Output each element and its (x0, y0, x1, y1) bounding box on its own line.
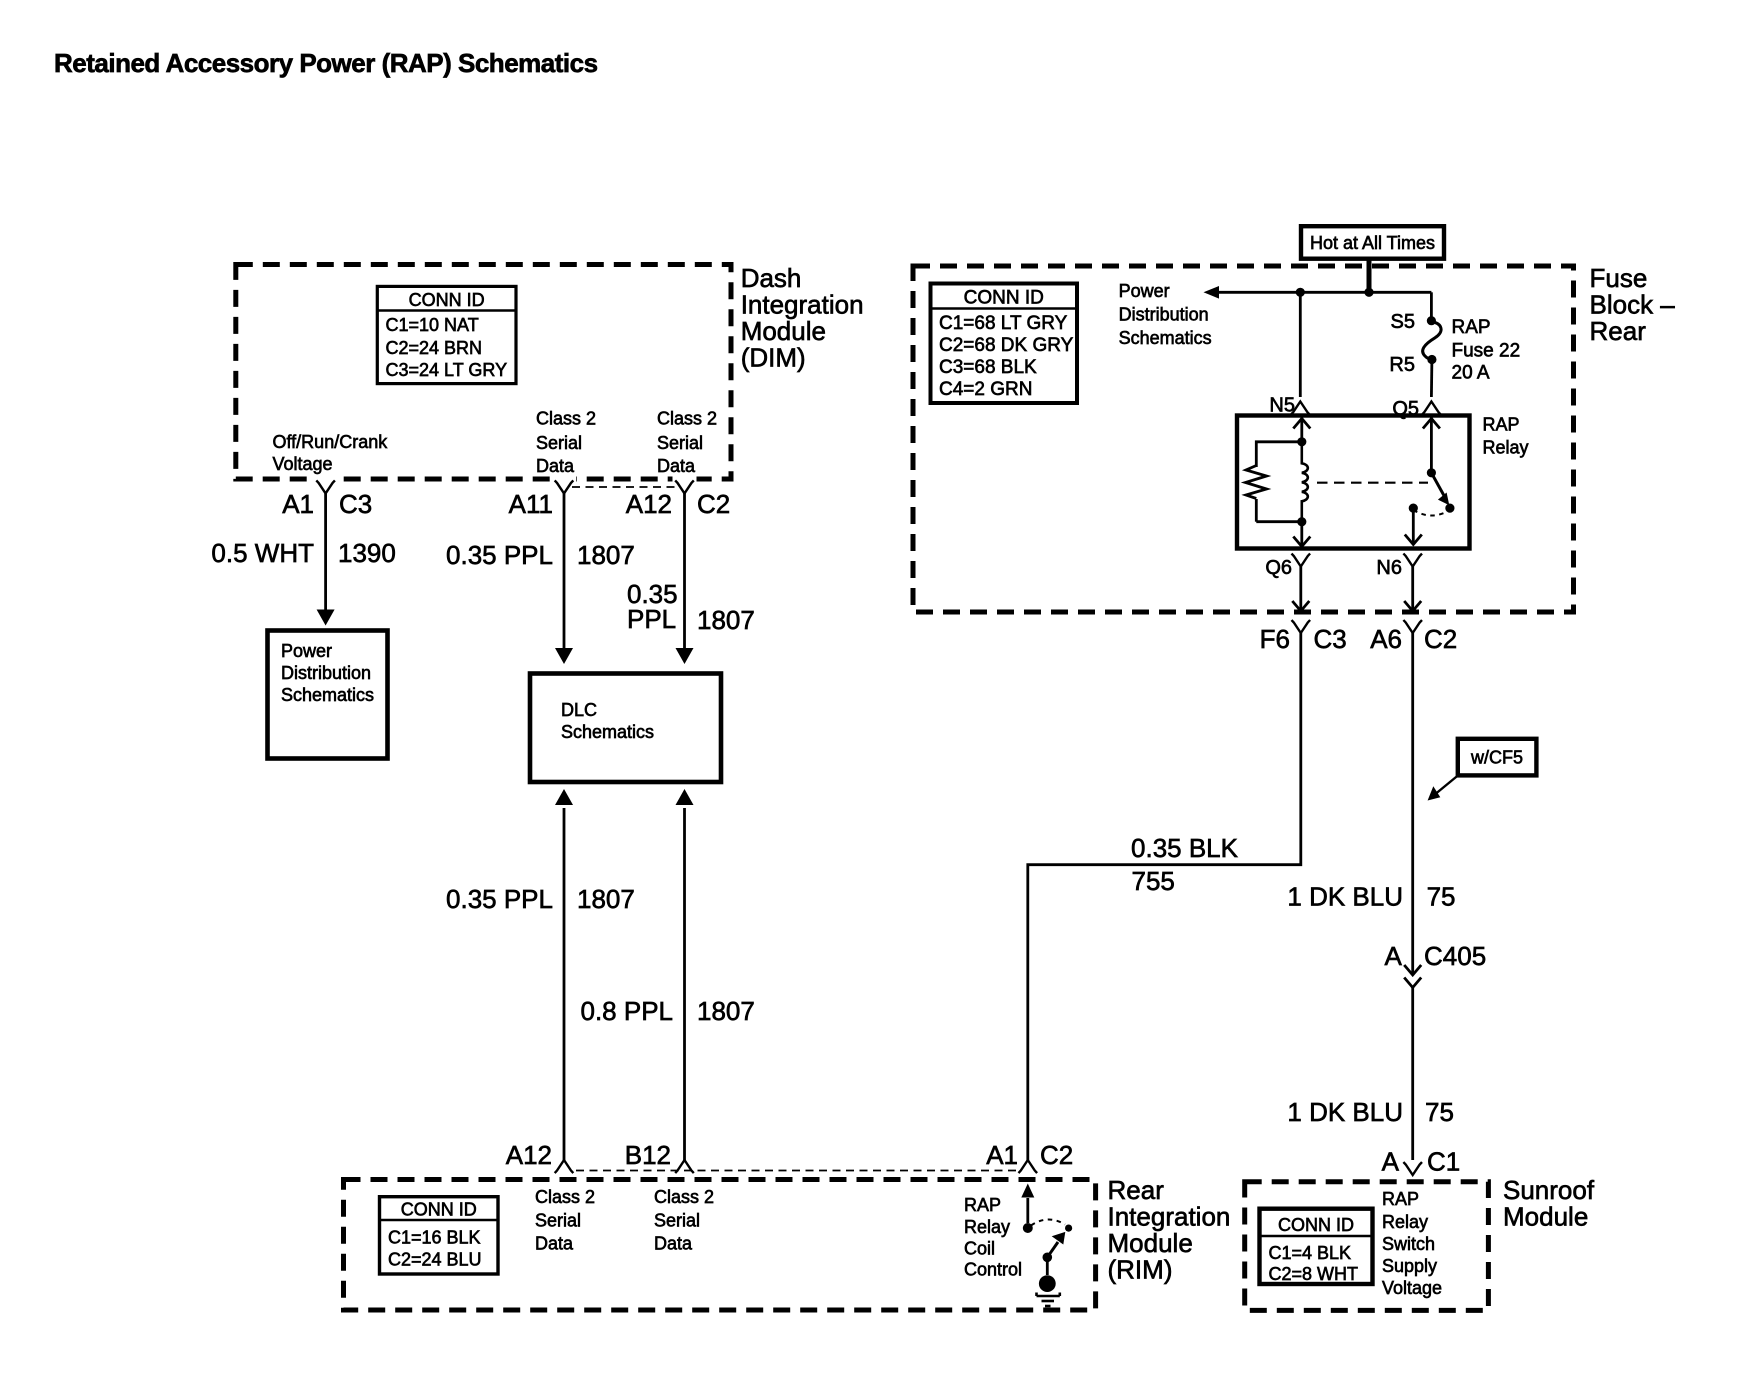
connector pin F6/C3 (1292, 620, 1311, 633)
connector pin A1/C3 of DIM (C3 connector symbol) (316, 480, 335, 493)
wire: relay coil feed from N5 (1300, 417, 1303, 442)
arrowhead to Power Distribution Schematics (left pointing) (1204, 286, 1220, 299)
box: Hot at All Times (1301, 226, 1444, 259)
svg-text:Serial: Serial (536, 433, 582, 453)
arrowhead on switch lever (1438, 493, 1449, 506)
wire: bottom rail to coil bottom junction (1256, 520, 1302, 523)
wire: Q6 down to fuse block edge (1299, 567, 1302, 611)
svg-text:Sunroof: Sunroof (1503, 1175, 1595, 1205)
wire: fuse R5 down to relay pin Q5 (1430, 360, 1433, 398)
text: DLC Schematics (561, 700, 654, 742)
svg-text:(RIM): (RIM) (1108, 1255, 1173, 1285)
svg-text:C1=16 BLK: C1=16 BLK (388, 1228, 481, 1248)
wire: bus down to RAP fuse S5 terminal (1430, 292, 1433, 317)
wire: N6 down to fuse block edge (1411, 567, 1414, 611)
svg-text:C1=10 NAT: C1=10 NAT (386, 315, 479, 335)
wire label 0.35 PPL (two lines) (627, 579, 678, 634)
svg-text:C405: C405 (1424, 941, 1486, 971)
svg-text:C2: C2 (1424, 624, 1457, 654)
svg-text:PPL: PPL (627, 604, 676, 634)
arrow down at fuse block border (Q6/F6) (1292, 601, 1309, 611)
svg-text:Schematics: Schematics (281, 685, 374, 705)
svg-text:Power: Power (1119, 281, 1170, 301)
svg-text:C2=8 WHT: C2=8 WHT (1269, 1264, 1359, 1284)
switch throw contact dot (N6 position) (1409, 504, 1418, 513)
label: Fuse Block - Rear (1590, 263, 1676, 346)
module box: Rear Integration Module (RIM), dashed border (344, 1180, 1096, 1311)
svg-text:Schematics: Schematics (1119, 328, 1212, 348)
label: Class 2 Serial Data (RIM B12) (654, 1187, 714, 1254)
connector pin A1/C2 of RIM (1019, 1160, 1038, 1173)
svg-text:Retained Accessory Power (RAP): Retained Accessory Power (RAP) Schematic… (54, 48, 598, 78)
open arrow down at relay N6 exit (1405, 535, 1422, 545)
svg-text:Relay: Relay (1382, 1212, 1428, 1232)
svg-text:Class 2: Class 2 (654, 1187, 714, 1207)
svg-text:C2: C2 (1040, 1140, 1073, 1170)
text: Power Distribution Schematics (281, 641, 374, 705)
svg-text:A6: A6 (1370, 624, 1402, 654)
label: RAP Fuse 22 20 A (1452, 317, 1521, 384)
wire: 0.35 PPL 1807 from A11 down to DLC Schematics (563, 493, 566, 649)
svg-text:Data: Data (535, 1234, 574, 1254)
svg-text:C1=4 BLK: C1=4 BLK (1269, 1243, 1352, 1263)
svg-text:Integration: Integration (741, 290, 864, 320)
svg-text:CONN ID: CONN ID (964, 288, 1044, 309)
svg-text:1807: 1807 (697, 605, 755, 635)
svg-text:Rear: Rear (1108, 1175, 1165, 1205)
wire: resistor bottom to rail (1255, 499, 1258, 522)
svg-text:Serial: Serial (654, 1211, 700, 1231)
wire: 0.35 BLK 755 from F6/C3 down, left, and down to RIM A1/C2 (1028, 633, 1301, 1160)
arrowhead on RIM switch lever (1052, 1232, 1066, 1245)
svg-text:A1: A1 (986, 1140, 1018, 1170)
wire: 0.35 PPL 1807 from A12/C2 down to DLC Schematics (683, 493, 686, 649)
label: Rear Integration Module (RIM) (1108, 1175, 1231, 1285)
svg-text:Data: Data (654, 1234, 693, 1254)
open arrow up at relay Q5 entry (1423, 419, 1440, 429)
switch throw contact dot (open position) (1445, 504, 1454, 513)
label: Off/Run/Crank Voltage (273, 432, 389, 474)
dashed relay actuation link from coil to switch (1317, 482, 1428, 484)
svg-text:C3=68 BLK: C3=68 BLK (939, 357, 1037, 378)
connector pin A/C1 of Sunroof Module (1403, 1162, 1422, 1175)
svg-text:Distribution: Distribution (281, 663, 371, 683)
leader line from w/CF5 tag to wire (1436, 775, 1459, 794)
svg-text:N6: N6 (1376, 557, 1402, 579)
svg-text:0.35 PPL: 0.35 PPL (446, 540, 553, 570)
svg-text:Control: Control (964, 1260, 1022, 1280)
svg-text:Schematics: Schematics (561, 722, 654, 742)
svg-text:C2=24 BRN: C2=24 BRN (386, 338, 483, 358)
table: DIM CONN ID (C1=10 NAT, C2=24 BRN, C3=24 LT GRY) (377, 286, 516, 383)
label: Dash Integration Module (DIM) (741, 263, 864, 373)
svg-text:Data: Data (536, 456, 575, 476)
relay pin connector N6 (1403, 554, 1422, 567)
svg-text:C3: C3 (339, 489, 372, 519)
label: Class 2 Serial Data (A11) (536, 409, 596, 477)
inductor: relay coil winding (1302, 442, 1308, 522)
svg-text:CONN ID: CONN ID (409, 290, 485, 310)
junction node: coil bottom (1297, 517, 1306, 526)
svg-text:75: 75 (1427, 882, 1456, 912)
open arrow down at relay Q6 exit (1293, 537, 1310, 547)
arrowhead up toward RIM pin A1/C2 (1021, 1184, 1034, 1198)
svg-text:A: A (1384, 941, 1402, 971)
label: Sunroof Module (1503, 1175, 1595, 1232)
arrowhead into Power Distribution Schematics box (317, 610, 335, 626)
svg-text:RAP: RAP (1382, 1189, 1419, 1209)
arrowhead of w/CF5 leader (1428, 786, 1441, 800)
wire: N6 contact down to relay pin N6 (1412, 508, 1415, 544)
svg-text:0.8 PPL: 0.8 PPL (580, 996, 673, 1026)
box: w/CF5 tag (1458, 739, 1537, 776)
wire: switch pivot to ground (1046, 1257, 1049, 1275)
svg-text:Class 2: Class 2 (536, 409, 596, 429)
wire: 0.8 PPL 1807 from RIM B12 up to DLC (683, 808, 686, 1161)
connector pin A6/C2 (1403, 620, 1422, 633)
arrowhead into DLC box (left) (555, 648, 573, 664)
svg-text:75: 75 (1425, 1097, 1454, 1127)
svg-text:C2=68 DK GRY: C2=68 DK GRY (939, 335, 1074, 356)
svg-text:Serial: Serial (535, 1211, 581, 1231)
svg-text:F6: F6 (1260, 624, 1290, 654)
wire: feed from Hot at All Times box down into fuse block (1367, 259, 1372, 293)
svg-text:Q6: Q6 (1265, 557, 1292, 579)
svg-text:Fuse: Fuse (1590, 263, 1648, 293)
svg-text:Coil: Coil (964, 1239, 995, 1259)
svg-text:0.35 PPL: 0.35 PPL (446, 884, 553, 914)
switch lever (RIM) (1047, 1242, 1058, 1257)
wire: RAP relay coil control switch feed (1026, 1198, 1029, 1223)
svg-text:S5: S5 (1391, 311, 1415, 333)
svg-text:CONN ID: CONN ID (1278, 1215, 1354, 1235)
box: DLC Schematics (530, 674, 721, 783)
resistor: relay coil suppression resistor (1246, 466, 1267, 499)
svg-text:A: A (1382, 1147, 1400, 1177)
table: Fuse Block CONN ID (C1=68 LT GRY, C2=68 DK GRY, C3=68 BLK, C4=2 GRN) (931, 284, 1078, 404)
arrow down at fuse block border (N6/A6) (1404, 601, 1421, 611)
svg-text:C2: C2 (697, 489, 730, 519)
label: RAP Relay Coil Control (964, 1195, 1022, 1280)
svg-text:Class 2: Class 2 (657, 409, 717, 429)
svg-text:RAP: RAP (964, 1195, 1001, 1215)
svg-text:C1=68 LT GRY: C1=68 LT GRY (939, 313, 1068, 334)
svg-text:Module: Module (1503, 1202, 1588, 1232)
dashed travel arc of RIM switch (1031, 1219, 1065, 1225)
arrowhead up into DLC box bottom (left) (555, 789, 573, 805)
switch pivot node (RIM) (1043, 1253, 1053, 1263)
wire: 1 DK BLU 75 from A6/C2 down to connector C405 (1411, 633, 1414, 974)
junction node: Hot feed on bus (1364, 288, 1373, 297)
junction node: coil top (1297, 437, 1306, 446)
svg-text:Integration: Integration (1108, 1202, 1231, 1232)
switch lever (movable contact) (1431, 473, 1444, 497)
svg-text:Rear: Rear (1590, 316, 1647, 346)
svg-text:C2=24 BLU: C2=24 BLU (388, 1250, 482, 1270)
wire: relay switch common from Q5 (1430, 417, 1433, 473)
junction node: bus to N5 branch (1296, 288, 1305, 297)
module box: Dash Integration Module (DIM), dashed border (236, 265, 731, 480)
wire: 0.35 PPL 1807 from RIM A12 up to DLC (563, 808, 566, 1161)
svg-text:1 DK BLU: 1 DK BLU (1287, 882, 1403, 912)
connector pin A11 of DIM (555, 480, 574, 493)
svg-text:20 A: 20 A (1452, 363, 1490, 384)
svg-text:A12: A12 (506, 1140, 552, 1170)
svg-text:R5: R5 (1389, 354, 1415, 376)
svg-text:Hot at All Times: Hot at All Times (1310, 233, 1435, 253)
label: Class 2 Serial Data (RIM A12) (535, 1187, 595, 1254)
svg-text:Relay: Relay (964, 1217, 1010, 1237)
svg-text:Relay: Relay (1483, 438, 1529, 458)
module box: Fuse Block - Rear, dashed border (913, 266, 1574, 612)
wire: horizontal bus to Power Distribution Schematics arrow (1217, 291, 1431, 294)
label: RAP Relay Switch Supply Voltage (1382, 1189, 1442, 1298)
box: Power Distribution Schematics (268, 631, 388, 759)
label: Power Distribution Schematics (fuse block) (1119, 281, 1212, 348)
svg-text:C1: C1 (1427, 1147, 1460, 1177)
svg-text:C3=24 LT GRY: C3=24 LT GRY (386, 360, 508, 380)
module box: Sunroof Module, dashed border (1245, 1182, 1489, 1311)
svg-text:Off/Run/Crank: Off/Run/Crank (273, 432, 389, 452)
thin dashed connector line between A11 and A12 (572, 486, 677, 488)
svg-text:Block –: Block – (1590, 290, 1676, 320)
dashed travel arc of relay switch (1413, 510, 1450, 516)
svg-text:(DIM): (DIM) (741, 343, 806, 373)
svg-text:0.5 WHT: 0.5 WHT (211, 538, 314, 568)
thin dashed in-line connector line across RIM top (576, 1170, 1016, 1172)
svg-text:Distribution: Distribution (1119, 305, 1209, 325)
connector pin A12/C2 of DIM (675, 480, 694, 493)
svg-text:A12: A12 (626, 489, 672, 519)
table: RIM CONN ID (C1=16 BLK, C2=24 BLU) (380, 1197, 499, 1274)
svg-text:Fuse 22: Fuse 22 (1452, 341, 1521, 362)
border gaps at DIM connector exits (314, 474, 338, 484)
svg-text:w/CF5: w/CF5 (1470, 748, 1523, 768)
relay pin connector Q5 (1422, 402, 1441, 415)
svg-text:RAP: RAP (1452, 317, 1491, 338)
wire: coil bottom down to relay pin Q6 (1300, 522, 1303, 547)
svg-text:Supply: Supply (1382, 1256, 1437, 1276)
wire: bus down to relay pin N5 (1299, 292, 1302, 397)
switch throw contact dot (RIM open position) (1065, 1225, 1072, 1232)
switch contact node (RIM) (1023, 1223, 1033, 1233)
svg-text:CONN ID: CONN ID (401, 1200, 477, 1220)
svg-text:1807: 1807 (577, 884, 635, 914)
arrowhead up into DLC box bottom (right) (676, 789, 694, 805)
wire: branch to relay resistor (1256, 442, 1302, 467)
switch pivot node (1427, 468, 1436, 477)
connector pin B12 of RIM (675, 1160, 694, 1173)
svg-text:Module: Module (741, 316, 826, 346)
svg-text:Power: Power (281, 641, 332, 661)
svg-text:1390: 1390 (338, 538, 396, 568)
table: Sunroof CONN ID (C1=4 BLK, C2=8 WHT) (1260, 1209, 1373, 1284)
svg-text:A1: A1 (282, 489, 314, 519)
svg-text:Switch: Switch (1382, 1234, 1435, 1254)
in-line connector C405 (upper chevron) (1404, 965, 1421, 975)
component box: RAP Relay (1237, 416, 1470, 549)
svg-text:C4=2 GRN: C4=2 GRN (939, 379, 1032, 400)
label: Class 2 Serial Data (A12) (657, 409, 717, 477)
wire: 1 DK BLU 75 from C405 down to Sunroof Module pin A/C1 (1411, 988, 1414, 1161)
wire: 0.5 WHT 1390 from A1 down to Power Distribution Schematics (324, 493, 327, 610)
svg-text:Module: Module (1108, 1228, 1193, 1258)
svg-text:RAP: RAP (1483, 415, 1520, 435)
ground symbol (RIM) (1037, 1275, 1060, 1306)
svg-text:1807: 1807 (697, 996, 755, 1026)
svg-text:1 DK BLU: 1 DK BLU (1287, 1097, 1403, 1127)
svg-text:N5: N5 (1269, 395, 1295, 417)
svg-text:A11: A11 (509, 489, 553, 519)
connector pin A12 of RIM (555, 1160, 574, 1173)
arrowhead into DLC box (right) (676, 648, 694, 664)
label: RAP Relay (1483, 415, 1529, 458)
svg-text:C3: C3 (1314, 624, 1347, 654)
svg-text:755: 755 (1132, 866, 1175, 896)
svg-text:Dash: Dash (741, 263, 802, 293)
in-line connector C405 (lower chevron) (1404, 978, 1421, 988)
svg-text:Serial: Serial (657, 433, 703, 453)
svg-text:Voltage: Voltage (1382, 1278, 1442, 1298)
svg-text:1807: 1807 (577, 540, 635, 570)
relay pin connector Q6 (1292, 554, 1311, 567)
svg-text:B12: B12 (625, 1140, 671, 1170)
svg-text:Class 2: Class 2 (535, 1187, 595, 1207)
relay pin connector N5 (1291, 402, 1310, 415)
fuse element: RAP Fuse 22 20 A (S-curve) (1423, 322, 1441, 360)
svg-text:Voltage: Voltage (273, 454, 333, 474)
fuse terminal R5 dot (1427, 355, 1436, 364)
fuse terminal S5 dot (1427, 316, 1436, 325)
svg-text:0.35 BLK: 0.35 BLK (1131, 833, 1239, 863)
svg-text:Data: Data (657, 456, 696, 476)
svg-text:DLC: DLC (561, 700, 597, 720)
open arrow up at relay N5 entry (1293, 419, 1310, 429)
